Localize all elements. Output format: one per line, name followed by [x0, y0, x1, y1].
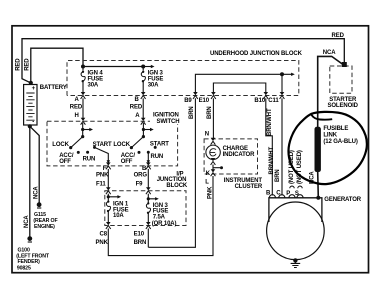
wire fusible link to generator: [317, 172, 320, 198]
svg-text:BRN/WHT: BRN/WHT: [267, 108, 273, 136]
svg-text:S: S: [295, 191, 299, 197]
svg-text:RED: RED: [16, 58, 22, 71]
svg-text:RED: RED: [70, 104, 83, 110]
svg-text:LOCK: LOCK: [113, 142, 130, 148]
contact ACC/OFF: [77, 151, 80, 154]
svg-text:RUN: RUN: [151, 154, 164, 160]
svg-text:L: L: [205, 179, 209, 185]
svg-text:INDICATOR: INDICATOR: [223, 152, 255, 158]
svg-text:F11: F11: [96, 182, 106, 188]
wire ORG B to F9: [147, 169, 149, 188]
battery B1: [24, 85, 37, 126]
connector F11 (IP block): [106, 187, 111, 194]
svg-text:RED: RED: [332, 33, 345, 39]
svg-text:H: H: [75, 113, 79, 119]
svg-text:(OR 10A): (OR 10A): [152, 221, 177, 227]
svg-text:C8: C8: [100, 232, 108, 238]
generator G1: [266, 191, 324, 260]
connector B (junction block): [141, 92, 146, 99]
connector B: [146, 162, 151, 169]
svg-text:PNK: PNK: [208, 186, 214, 199]
contact START: [154, 146, 157, 149]
svg-text:F: F: [103, 166, 107, 172]
svg-text:30A: 30A: [88, 83, 99, 89]
node bus-C11: [280, 72, 284, 76]
fusible link (12 GA-BLU): [315, 127, 321, 172]
charge indicator lamp: [206, 138, 220, 170]
switch arm (LOCK position): [131, 137, 143, 148]
svg-text:NCA: NCA: [323, 50, 336, 56]
wire output to F: [95, 147, 109, 161]
svg-text:START: START: [93, 142, 112, 148]
wire output to B: [147, 152, 149, 161]
bus B9-C11 in junction block: [195, 74, 292, 93]
fuse IGN1 10A: [106, 200, 110, 212]
ground G100: [27, 236, 32, 241]
connector E10 (junction block): [211, 92, 216, 99]
node bus-IGN3: [141, 65, 145, 69]
node generator B+: [316, 196, 320, 200]
contact LOCK: [69, 146, 72, 149]
wire fuse to connector A: [82, 68, 84, 93]
wire PNK F to F11: [107, 169, 109, 188]
wire NCA to G115: [30, 126, 39, 204]
svg-text:(NOT USED): (NOT USED): [297, 150, 303, 184]
svg-text:OFF: OFF: [59, 159, 71, 165]
svg-text:UNDERHOOD JUNCTION BLOCK: UNDERHOOD JUNCTION BLOCK: [210, 51, 303, 57]
connector A (ignition switch right): [141, 118, 146, 125]
node feed 1: [81, 128, 84, 131]
wire NCA to G100: [29, 126, 31, 238]
svg-text:FENDER): FENDER): [18, 259, 41, 265]
fuse IGN4 30A: [81, 71, 85, 83]
fuse IGN3 30A: [141, 71, 145, 83]
wire fuse to connector B: [142, 68, 144, 93]
svg-text:OFF: OFF: [121, 159, 133, 165]
svg-text:BRN: BRN: [189, 106, 195, 119]
wire drop to C11: [281, 74, 283, 93]
bus E10-B10 in junction block: [213, 83, 265, 93]
svg-text:B9: B9: [184, 98, 192, 104]
underhood junction block box: [67, 61, 299, 96]
wire battery negative: [29, 125, 31, 126]
svg-text:BLOCK: BLOCK: [166, 183, 188, 189]
svg-text:90825: 90825: [17, 265, 31, 271]
wire RED A to H: [82, 98, 84, 118]
fuse IGN3 7.5A: [146, 202, 150, 214]
svg-text:E10: E10: [199, 98, 210, 104]
svg-text:(12 GA-BLU): (12 GA-BLU): [323, 139, 357, 145]
connector F: [106, 162, 111, 169]
contact ACC/OFF: [138, 151, 141, 154]
connector K/L: [211, 169, 216, 176]
svg-text:GENERATOR: GENERATOR: [324, 197, 361, 203]
svg-text:N: N: [205, 131, 209, 137]
wire BRN E10 to N: [212, 98, 214, 138]
connector C8: [106, 222, 111, 229]
node bus-IGN4: [81, 65, 85, 69]
svg-text:BRN: BRN: [275, 169, 281, 182]
connector B10: [263, 92, 268, 99]
ground generator: [293, 258, 297, 262]
node IGN3 feed: [147, 197, 150, 200]
node battery positive: [29, 81, 33, 85]
svg-text:START: START: [150, 142, 169, 148]
svg-text:RED: RED: [130, 104, 143, 110]
svg-text:BRN: BRN: [207, 106, 213, 119]
svg-text:SOLENOID: SOLENOID: [328, 103, 359, 109]
svg-text:P: P: [286, 191, 290, 197]
starter solenoid box: [330, 66, 352, 93]
svg-text:NCA: NCA: [24, 215, 30, 228]
IP junction block box: [105, 191, 186, 226]
svg-text:C11: C11: [268, 98, 279, 104]
svg-text:IGNITION: IGNITION: [153, 113, 179, 119]
svg-text:CLUSTER: CLUSTER: [235, 184, 263, 190]
svg-text:SWITCH: SWITCH: [157, 119, 180, 125]
wire RED battery to starter solenoid (top run): [22, 39, 344, 83]
svg-text:RUN: RUN: [83, 156, 96, 162]
wire branch arrow: [143, 129, 151, 131]
svg-text:RED: RED: [25, 58, 31, 71]
svg-text:NCA: NCA: [34, 186, 40, 199]
svg-text:PNK: PNK: [96, 172, 109, 178]
contact RUN: [86, 151, 89, 154]
hand-drawn circle annotation: [288, 112, 366, 184]
svg-text:B10: B10: [254, 98, 265, 104]
ignition switch box: [47, 121, 178, 166]
wire RED B to A: [142, 98, 144, 118]
contact LOCK: [130, 146, 133, 149]
svg-text:LINK: LINK: [323, 132, 337, 138]
wire PNK C8 to cluster L: [108, 176, 213, 256]
node pivot 1: [81, 135, 84, 138]
connector B9: [193, 92, 198, 99]
node feed 2: [142, 128, 145, 131]
contact RUN: [147, 151, 150, 154]
connector C11: [280, 92, 285, 99]
wire feed from A: [142, 123, 144, 137]
svg-text:ORG: ORG: [134, 172, 148, 178]
connector H (ignition switch): [81, 118, 86, 125]
wire RED battery to junction block: [31, 48, 83, 83]
svg-text:F9: F9: [136, 182, 144, 188]
wire NCA solenoid to fusible link: [318, 56, 343, 127]
connector A (junction block): [81, 92, 86, 99]
bus feed in junction block: [83, 66, 143, 68]
wire BRN/WHT B10 down: [266, 98, 273, 195]
svg-text:BATTERY: BATTERY: [40, 85, 67, 91]
terminal starter solenoid: [342, 62, 347, 67]
svg-text:FUSIBLE: FUSIBLE: [323, 126, 348, 132]
instrument cluster box: [204, 139, 257, 174]
wire branch arrow: [83, 129, 91, 131]
connector E10 (IP block): [146, 222, 151, 229]
connector F9 (IP block): [146, 187, 151, 194]
svg-text:7.5A: 7.5A: [153, 215, 166, 221]
svg-text:ENGINE): ENGINE): [34, 224, 55, 230]
node IGN1 feed: [107, 195, 110, 198]
svg-text:BRN: BRN: [134, 240, 147, 246]
wire BRN B9 down: [148, 98, 195, 247]
border frame: [12, 26, 369, 273]
wire BRN E10 up join: [147, 229, 149, 248]
svg-text:PNK: PNK: [96, 240, 109, 246]
not used terminals P S: [290, 186, 302, 188]
node K branch: [213, 167, 220, 169]
ground G115: [37, 202, 42, 207]
ignition switch section 1: [52, 123, 112, 165]
wire BRN C11 down: [281, 98, 283, 195]
switch arm (LOCK position): [71, 137, 83, 148]
terminal bumps: [269, 195, 303, 198]
svg-text:10A: 10A: [113, 213, 124, 219]
node battery negative: [28, 124, 32, 128]
contact START: [93, 146, 96, 149]
svg-text:E10: E10: [134, 232, 145, 238]
svg-text:LOCK: LOCK: [52, 142, 69, 148]
svg-text:30A: 30A: [148, 83, 159, 89]
wire feed from H: [82, 123, 84, 137]
node pivot 2: [142, 135, 145, 138]
ignition switch section 2: [113, 123, 169, 165]
